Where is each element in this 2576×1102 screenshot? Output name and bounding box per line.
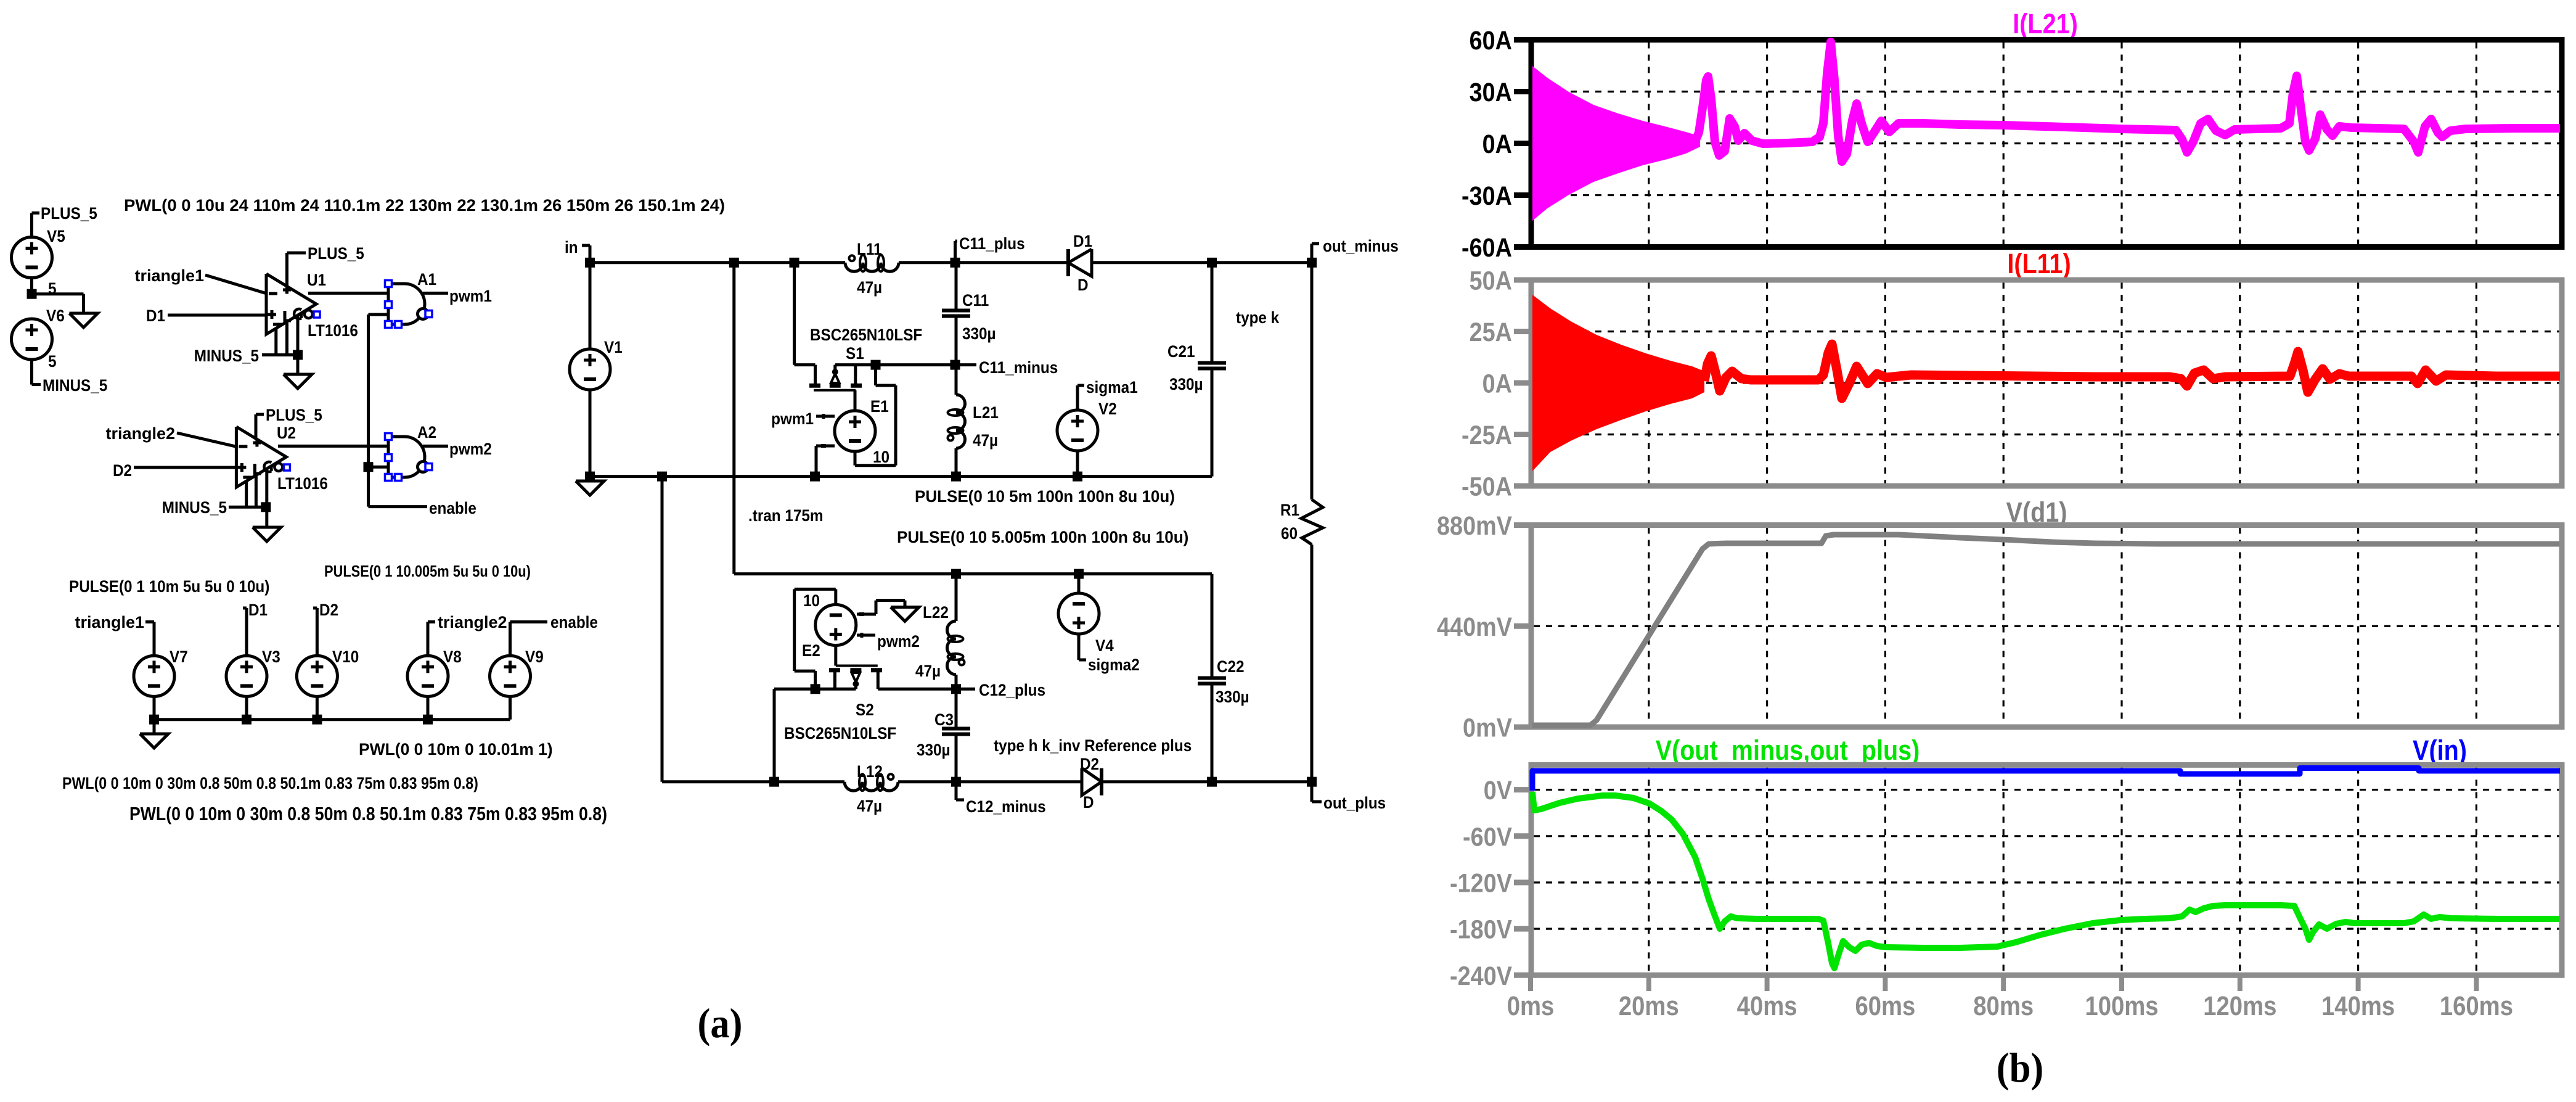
svg-text:R1: R1 (1280, 501, 1299, 519)
svg-text:A1: A1 (417, 271, 436, 289)
net label triangle1 (U1 -in) (134, 266, 204, 285)
svg-text:LT1016: LT1016 (308, 322, 358, 340)
svg-text:-240V: -240V (1450, 961, 1512, 991)
svg-text:330µ: 330µ (962, 325, 996, 343)
ground (140, 734, 168, 748)
plot 4 y-axis labels (1450, 775, 1532, 991)
wire (423, 445, 448, 448)
svg-text:out_plus: out_plus (1323, 794, 1386, 812)
svg-text:-120V: -120V (1450, 868, 1512, 898)
svg-text:out_minus: out_minus (1323, 237, 1399, 255)
wire (source row rail) (154, 718, 510, 721)
voltage source V8 (407, 648, 462, 697)
wire (lower rail mid) (898, 780, 1082, 783)
svg-text:.tran 175m: .tran 175m (748, 507, 824, 525)
wire (427, 696, 430, 720)
svg-text:0A: 0A (1482, 368, 1512, 398)
plot 4 frame and grid (1531, 765, 2562, 975)
wire (955, 263, 958, 365)
wire (316, 696, 319, 720)
wire (774, 689, 816, 781)
net label MINUS_5 (V6 bottom) (32, 377, 108, 395)
svg-text:sigma1: sigma1 (1086, 379, 1138, 397)
node junctions ground rail (657, 472, 1082, 482)
net label C11_plus (955, 235, 1025, 263)
svg-text:E1: E1 (870, 398, 889, 416)
svg-text:60ms: 60ms (1855, 991, 1915, 1021)
svg-text:PWL(0 0 10m 0 30m 0.8 50m 0.8: PWL(0 0 10m 0 30m 0.8 50m 0.8 50.1m 0.83… (62, 774, 478, 792)
voltage source V3 (226, 648, 280, 697)
net label triangle1 (V7 top) (75, 613, 154, 631)
node C22 bottom junction (1207, 777, 1217, 787)
svg-text:pwm2: pwm2 (877, 633, 920, 651)
svg-text:25A: 25A (1470, 317, 1512, 347)
text PWL V1 source value (124, 195, 725, 215)
svg-text:60: 60 (1281, 525, 1298, 543)
svg-text:-50A: -50A (1462, 471, 1512, 501)
svg-text:(a): (a) (698, 1001, 743, 1047)
svg-text:BSC265N10LSF: BSC265N10LSF (810, 326, 922, 344)
svg-text:MINUS_5: MINUS_5 (43, 377, 107, 395)
svg-text:-30A: -30A (1462, 181, 1512, 211)
svg-text:-25A: -25A (1462, 420, 1512, 450)
ground (576, 481, 604, 495)
svg-text:D2: D2 (113, 462, 132, 480)
text PWL V10 value (129, 804, 607, 824)
wire (955, 689, 958, 781)
net label D1 (V3 top) (243, 601, 268, 619)
inductor L22 (915, 604, 965, 680)
svg-text:triangle2: triangle2 (105, 424, 175, 443)
svg-text:C11_plus: C11_plus (959, 235, 1025, 253)
plot 4 x-axis ticks (1531, 975, 2476, 991)
trace I(L11) startup envelope (1532, 295, 1704, 471)
text PULSE V7 value (69, 578, 269, 596)
svg-text:enable: enable (550, 614, 598, 631)
node S2 junction (811, 684, 820, 694)
net label D2 (U2 +in) (113, 462, 132, 480)
voltage source V6 (12, 307, 65, 360)
net label triangle2 (V8 top) (428, 613, 507, 631)
plot 1 frame and grid (1531, 40, 2562, 247)
svg-text:D2: D2 (319, 601, 338, 619)
resistor R1 (1280, 263, 1323, 782)
svg-text:V1: V1 (604, 339, 623, 356)
wire (245, 696, 248, 720)
svg-text:I(L11): I(L11) (2007, 248, 2071, 279)
voltage source V9 (490, 648, 544, 697)
trace V(d1) (1532, 535, 2559, 725)
svg-text:40ms: 40ms (1737, 991, 1797, 1021)
svg-text:V9: V9 (525, 648, 544, 666)
diode D1 (1068, 232, 1092, 294)
wire (ground rail) (590, 475, 1212, 478)
plot 2 frame and grid (1531, 280, 2562, 486)
svg-text:5: 5 (48, 353, 57, 371)
capacitor C3 (917, 711, 970, 759)
svg-text:type k: type k (1236, 309, 1280, 327)
svg-text:-180V: -180V (1450, 914, 1512, 944)
svg-text:triangle1: triangle1 (134, 266, 204, 285)
trace V(in) (1532, 768, 2560, 791)
wire (30, 278, 33, 294)
svg-text:PWL(0 0 10m 0 10.01m 1): PWL(0 0 10m 0 10.01m 1) (359, 740, 553, 759)
inductor L11 (845, 241, 899, 297)
plot 4 title V(in) (2413, 734, 2467, 766)
plot 3 frame and grid (1531, 525, 2562, 728)
capacitor C22 (1198, 658, 1249, 706)
svg-text:BSC265N10LSF: BSC265N10LSF (784, 725, 896, 742)
wire (316, 608, 319, 656)
svg-text:L21: L21 (973, 404, 999, 422)
node C12_minus junction (951, 777, 961, 787)
svg-text:enable: enable (429, 500, 476, 517)
text PULSE V8 value (324, 562, 531, 580)
svg-text:C22: C22 (1217, 658, 1245, 676)
plot 3 y-axis labels (1437, 511, 1532, 742)
text PWL V3 value (62, 774, 478, 792)
svg-text:C11: C11 (962, 292, 989, 310)
svg-text:V4: V4 (1095, 637, 1114, 655)
diode D2 (1080, 755, 1102, 812)
wire (32, 294, 84, 313)
svg-text:D1: D1 (1073, 232, 1092, 250)
node S1 drain junction (790, 258, 799, 268)
svg-text:880mV: 880mV (1437, 511, 1512, 541)
text PWL V9 value (359, 740, 553, 759)
svg-text:-60V: -60V (1463, 821, 1512, 852)
voltage source V2 (1057, 400, 1117, 451)
net label C12_plus (956, 681, 1045, 699)
voltage source V5 (12, 228, 65, 278)
voltage source V10 (296, 648, 359, 697)
wire (134, 466, 236, 469)
wire (816, 446, 835, 477)
wire (205, 275, 266, 294)
svg-text:S1: S1 (846, 345, 864, 363)
net label enable (369, 500, 476, 517)
wire (153, 696, 156, 720)
svg-text:D2: D2 (1080, 755, 1099, 773)
svg-text:PWL(0 0 10u 24 110m 24 110.1m: PWL(0 0 10u 24 110m 24 110.1m 22 130m 22… (124, 195, 725, 215)
wire (153, 622, 156, 656)
svg-text:U2: U2 (277, 424, 296, 442)
svg-text:type h k_inv Reference plus: type h k_inv Reference plus (994, 737, 1192, 755)
svg-text:LT1016: LT1016 (277, 475, 328, 493)
plot 2 y-axis labels (1462, 265, 1532, 501)
svg-text:PULSE(0 10 5.005m 100n 100n 8u: PULSE(0 10 5.005m 100n 100n 8u 10u) (897, 528, 1188, 547)
node out_minus junction (1307, 258, 1317, 268)
net label out_minus (1312, 237, 1399, 263)
wire (E2 out to S2 gate) (834, 646, 837, 666)
svg-text:160ms: 160ms (2440, 991, 2513, 1021)
node C21 top junction (1207, 258, 1217, 268)
wire (878, 688, 956, 691)
svg-text:60A: 60A (1470, 25, 1512, 56)
wire (308, 292, 388, 295)
svg-text:in: in (565, 239, 578, 257)
wire (955, 365, 958, 477)
wire (899, 261, 1068, 264)
net label pwm2 (A2 out) (449, 440, 492, 458)
svg-text:V8: V8 (443, 648, 462, 666)
svg-text:PLUS_5: PLUS_5 (41, 205, 97, 223)
svg-text:V(in): V(in) (2413, 734, 2467, 766)
wire (262, 316, 298, 355)
svg-text:triangle2: triangle2 (438, 613, 507, 631)
text caption (b) (1997, 1045, 2043, 1092)
wire (589, 477, 592, 481)
text .tran directive (748, 507, 824, 525)
wire (1077, 574, 1081, 593)
wire (369, 313, 389, 316)
ground (253, 527, 281, 541)
text caption (a) (698, 1001, 743, 1047)
capacitor C21 (1167, 343, 1226, 393)
svg-text:pwm1: pwm1 (449, 287, 492, 305)
svg-text:330µ: 330µ (1216, 688, 1249, 706)
wire (1092, 261, 1312, 264)
net label sigma2 (V4 bottom) (1079, 634, 1140, 674)
plot 1 y-axis labels (1462, 25, 1532, 263)
wire (369, 466, 389, 469)
wire (816, 688, 856, 691)
svg-text:V(out_minus,out_plus): V(out_minus,out_plus) (1656, 734, 1920, 766)
inductor L12 (844, 763, 898, 815)
wire (367, 315, 370, 507)
trace I(L21) (1695, 42, 2560, 162)
net label pwm2 (E2 ctrl+) (857, 633, 920, 651)
wire (gnd to lower rail) (661, 477, 664, 782)
wire (229, 469, 267, 507)
wire (1076, 451, 1079, 477)
wire (top rail) (590, 261, 845, 264)
svg-text:PULSE(0 1 10.005m 5u 5u 0 10u): PULSE(0 1 10.005m 5u 5u 0 10u) (324, 562, 531, 580)
dependent source E2 (802, 592, 864, 660)
plot 2 title I(L11) (2007, 248, 2071, 279)
net label out_plus (1312, 782, 1386, 813)
wire (296, 355, 300, 375)
wire (in to sigma rail) (732, 263, 735, 574)
node (729, 258, 739, 268)
svg-text:MINUS_5: MINUS_5 (194, 347, 259, 365)
plot 3 title V(d1) (2006, 496, 2067, 528)
wire (sigma rail) (734, 572, 1212, 575)
svg-text:V7: V7 (170, 648, 188, 666)
wire (427, 622, 430, 656)
svg-text:S2: S2 (856, 701, 874, 719)
node C11_minus junction (951, 360, 960, 370)
wire (168, 314, 266, 317)
svg-text:330µ: 330µ (1169, 376, 1203, 393)
svg-text:A2: A2 (417, 424, 436, 442)
svg-text:47µ: 47µ (857, 279, 882, 297)
trace V(out_minus,out_plus) (1532, 792, 2560, 968)
transistor S2 (BSC265N10LSF) (784, 666, 896, 743)
plot 1 title I(L21) (2013, 8, 2078, 39)
plot 4 title V(out_minus,out_plus) (1656, 734, 1920, 766)
svg-text:47µ: 47µ (973, 432, 998, 450)
op-amp U2 (LT1016 comparator) (236, 424, 328, 493)
trace I(L11) (1704, 344, 2560, 398)
voltage source V1 (570, 339, 623, 390)
dependent source E1 (821, 398, 889, 466)
svg-text:100ms: 100ms (2085, 991, 2158, 1021)
svg-text:C3: C3 (934, 711, 954, 729)
inductor L21 (948, 395, 999, 450)
net label sigma1 (V2 top) (1077, 379, 1138, 397)
text type h k_inv Reference plus (994, 737, 1192, 755)
wire (153, 720, 156, 734)
wire (245, 608, 248, 656)
wire (30, 213, 33, 237)
svg-text:E2: E2 (802, 642, 820, 660)
wire (30, 360, 33, 385)
svg-text:L11: L11 (857, 241, 882, 258)
node V1 gnd junction (585, 472, 595, 482)
svg-text:I(L21): I(L21) (2013, 8, 2078, 39)
svg-text:V3: V3 (262, 648, 280, 666)
op-amp U1 (LT1016 comparator) (266, 271, 358, 340)
transistor S1 (BSC265N10LSF) (809, 326, 922, 390)
net label C12_minus (956, 782, 1046, 816)
svg-text:0A: 0A (1482, 129, 1512, 159)
svg-text:C21: C21 (1167, 343, 1195, 361)
wire (S1 source to C11_minus) (835, 363, 955, 366)
plot 4 x-axis labels (1507, 991, 2513, 1021)
net label enable (V9 top) (510, 614, 598, 631)
wire (816, 415, 835, 418)
wire (E2 loop) (795, 589, 836, 689)
voltage source V7 (134, 648, 188, 697)
ground (891, 607, 919, 622)
node C12_plus junction (951, 684, 961, 694)
net label PLUS_5 (V5 top) (32, 205, 97, 223)
svg-text:PULSE(0 10 5m 100n 100n 8u 10u: PULSE(0 10 5m 100n 100n 8u 10u) (915, 487, 1175, 506)
node (769, 777, 779, 787)
wire (509, 622, 512, 656)
node in junction (585, 258, 595, 268)
svg-text:80ms: 80ms (1973, 991, 2034, 1021)
wire (285, 253, 288, 286)
svg-text:10: 10 (803, 592, 820, 610)
wire (E1 loop) (855, 365, 896, 466)
node 5 (V6 bottom) (48, 353, 57, 371)
svg-text:PLUS_5: PLUS_5 (308, 245, 364, 263)
svg-text:0ms: 0ms (1507, 991, 1555, 1021)
wire (1211, 574, 1214, 782)
net label D2 (V10 top) (313, 601, 338, 619)
svg-text:sigma2: sigma2 (1088, 656, 1140, 674)
svg-text:47µ: 47µ (915, 662, 941, 680)
node U2 gnd junction (261, 502, 271, 512)
net label pwm1 (E1 ctrl+) (771, 410, 814, 428)
text PULSE V4 value (897, 528, 1188, 547)
net label pwm1 (A1 out) (449, 287, 492, 305)
capacitor C11 (942, 292, 996, 343)
svg-text:L22: L22 (923, 604, 949, 622)
node junctions sigma rail (951, 569, 1084, 579)
wire (E1 out+ to S1 gate) (854, 390, 857, 411)
svg-text:120ms: 120ms (2203, 991, 2276, 1021)
ground (284, 374, 312, 389)
wire (177, 433, 236, 446)
svg-text:V2: V2 (1098, 400, 1117, 418)
svg-text:pwm1: pwm1 (771, 410, 814, 428)
wire (265, 507, 268, 527)
wire (1076, 385, 1079, 410)
svg-text:440mV: 440mV (1437, 612, 1512, 642)
wire (955, 574, 958, 689)
svg-text:PLUS_5: PLUS_5 (266, 406, 322, 424)
net label MINUS_5 (U2 V-) (162, 499, 227, 517)
svg-text:V5: V5 (47, 228, 65, 245)
wire (509, 696, 512, 720)
logic gate A2 (385, 424, 437, 481)
net label PLUS_5 (U2 V+) (256, 406, 322, 424)
svg-text:D1: D1 (146, 307, 165, 325)
svg-text:-60A: -60A (1462, 232, 1512, 263)
svg-text:C11_minus: C11_minus (979, 359, 1058, 377)
svg-text:47µ: 47µ (857, 797, 882, 815)
wire (278, 445, 388, 448)
text type k (1236, 309, 1280, 327)
svg-text:U1: U1 (307, 271, 326, 289)
svg-text:10: 10 (873, 448, 889, 466)
wire (1211, 263, 1214, 477)
svg-text:V6: V6 (46, 307, 65, 325)
node U1 gnd junction (293, 350, 303, 360)
svg-text:D: D (1077, 276, 1089, 294)
net label MINUS_5 (U1 V-) (194, 347, 259, 365)
node C11 top junction (951, 258, 960, 268)
svg-text:C12_minus: C12_minus (966, 798, 1046, 816)
wire (423, 292, 448, 295)
svg-text:MINUS_5: MINUS_5 (162, 499, 227, 517)
svg-text:triangle1: triangle1 (75, 613, 144, 631)
svg-text:D1: D1 (248, 601, 268, 619)
svg-text:140ms: 140ms (2321, 991, 2395, 1021)
net label D1 (U1 +in) (146, 307, 165, 325)
svg-text:PWL(0 0 10m 0 30m 0.8 50m 0.8: PWL(0 0 10m 0 30m 0.8 50m 0.8 50.1m 0.83… (129, 804, 607, 824)
wire (795, 263, 816, 365)
net label triangle2 (U2 -in) (105, 424, 175, 443)
wire (255, 414, 258, 440)
voltage source V4 (1058, 593, 1114, 655)
trace I(L21) startup envelope (1532, 66, 1700, 221)
svg-text:30A: 30A (1470, 77, 1512, 107)
wire (lower rail right) (1102, 780, 1312, 783)
svg-text:D: D (1083, 794, 1094, 812)
wire (589, 263, 592, 477)
svg-text:(b): (b) (1997, 1045, 2043, 1092)
wire (lower rail left) (662, 780, 844, 783)
svg-text:PULSE(0 1 10m 5u 5u 0 10u): PULSE(0 1 10m 5u 5u 0 10u) (69, 578, 269, 596)
net label PLUS_5 (U1 V+) (287, 245, 364, 263)
svg-text:20ms: 20ms (1619, 991, 1679, 1021)
svg-text:0V: 0V (1484, 775, 1512, 805)
node R1 bottom junction (1307, 777, 1317, 787)
svg-text:50A: 50A (1470, 265, 1512, 295)
wire (E2 ctrl-) (857, 601, 905, 614)
wire (589, 245, 592, 263)
node enable junction (364, 462, 374, 472)
svg-text:330µ: 330µ (917, 741, 951, 759)
svg-text:pwm2: pwm2 (449, 440, 492, 458)
net label C11_minus (955, 359, 1058, 377)
node junctions source rail (149, 715, 433, 725)
net label in (V1 top) (565, 239, 590, 257)
